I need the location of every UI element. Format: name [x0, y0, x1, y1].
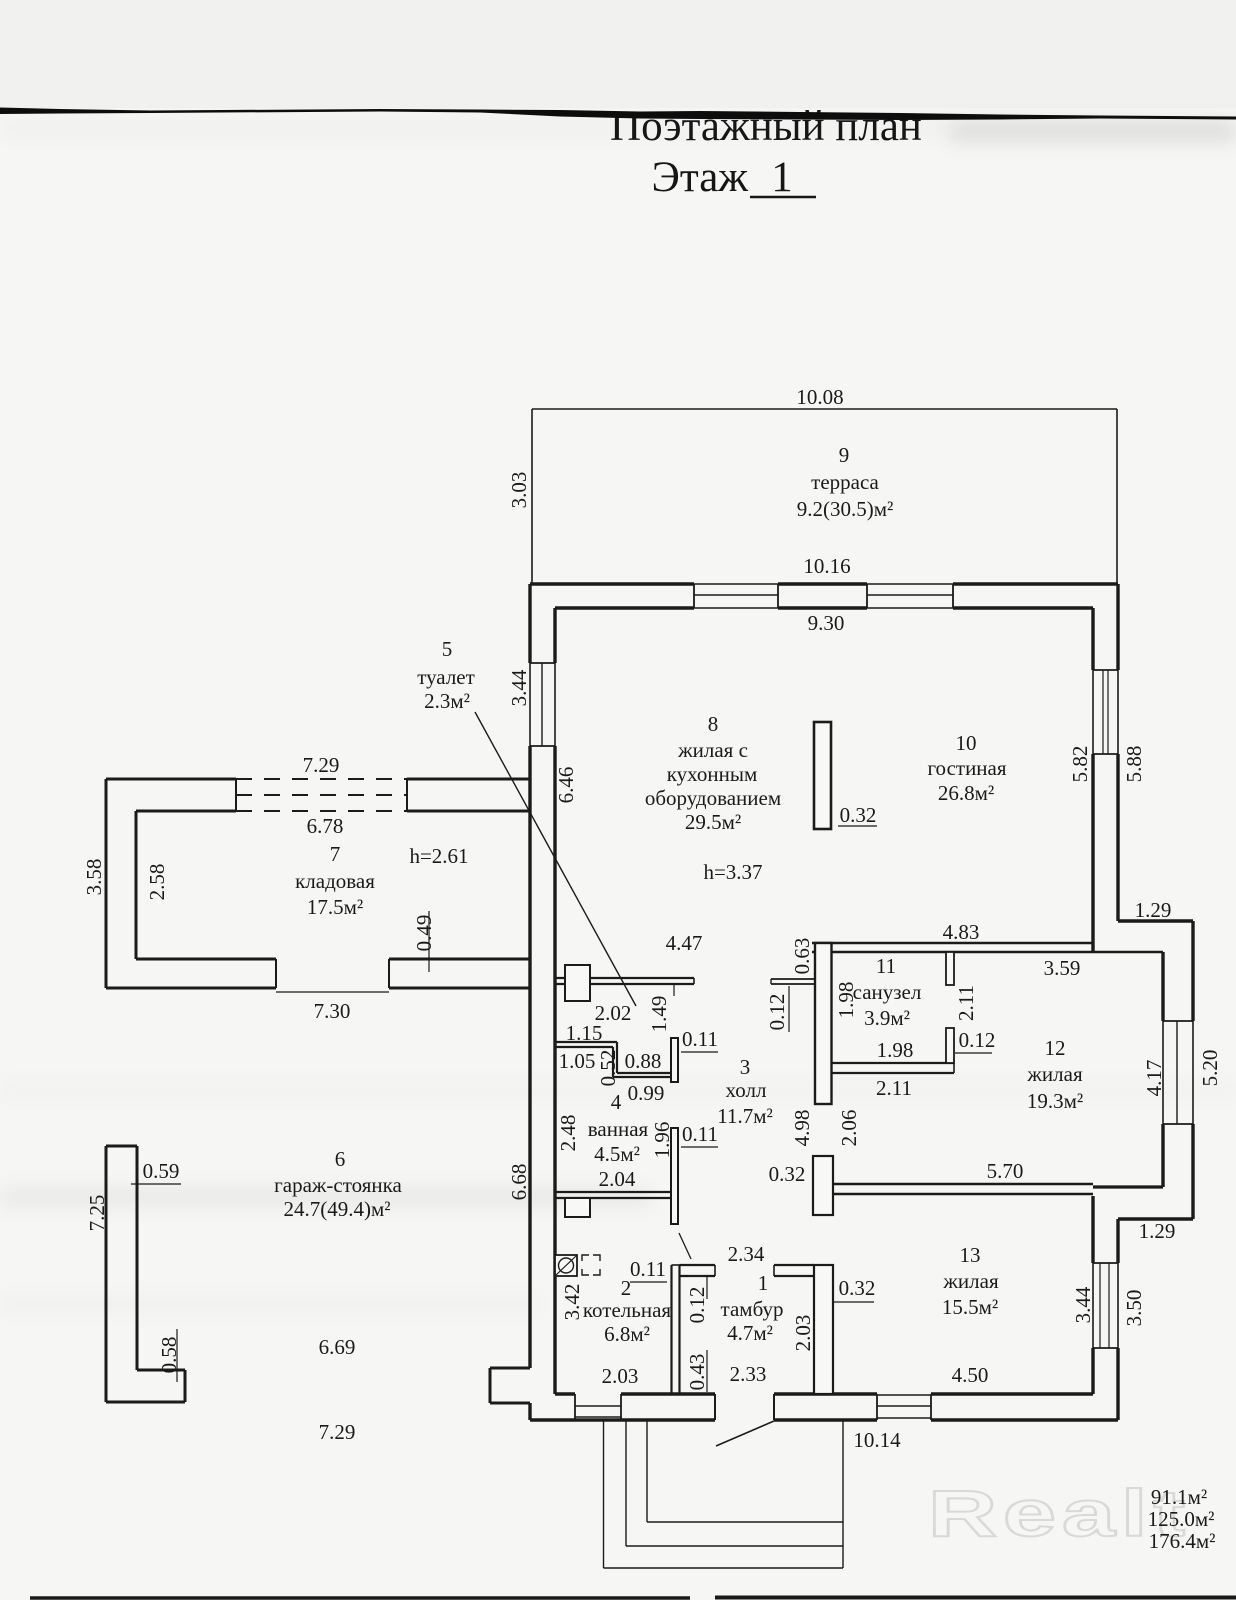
svg-text:холл: холл	[726, 1078, 767, 1102]
svg-text:3.59: 3.59	[1044, 956, 1081, 980]
svg-text:2: 2	[621, 1276, 632, 1300]
svg-text:0.52: 0.52	[596, 1050, 620, 1087]
svg-text:3.42: 3.42	[560, 1284, 584, 1321]
svg-text:6.8м²: 6.8м²	[604, 1322, 650, 1346]
svg-text:12: 12	[1045, 1036, 1066, 1060]
svg-text:1.49: 1.49	[647, 996, 671, 1033]
svg-text:Этаж: Этаж	[652, 154, 749, 201]
svg-text:19.3м²: 19.3м²	[1027, 1089, 1083, 1113]
svg-text:10.14: 10.14	[853, 1428, 901, 1452]
svg-text:6.68: 6.68	[507, 1164, 531, 1201]
svg-text:176.4м²: 176.4м²	[1149, 1529, 1216, 1553]
svg-text:2.34: 2.34	[728, 1242, 765, 1266]
svg-text:h=2.61: h=2.61	[409, 844, 468, 868]
svg-text:4.17: 4.17	[1142, 1060, 1166, 1097]
svg-text:3.50: 3.50	[1122, 1290, 1146, 1327]
svg-text:6.69: 6.69	[319, 1335, 356, 1359]
svg-text:кухонным: кухонным	[667, 762, 757, 786]
svg-text:11: 11	[876, 954, 896, 978]
svg-text:0.58: 0.58	[157, 1337, 181, 1374]
svg-text:1: 1	[758, 1271, 769, 1295]
svg-text:7.30: 7.30	[314, 999, 351, 1023]
svg-text:5.88: 5.88	[1122, 746, 1146, 783]
svg-text:0.32: 0.32	[839, 1276, 876, 1300]
svg-text:7.29: 7.29	[303, 753, 340, 777]
svg-text:гараж-стоянка: гараж-стоянка	[274, 1173, 402, 1197]
svg-text:0.32: 0.32	[840, 803, 877, 827]
svg-text:6: 6	[335, 1147, 346, 1171]
svg-text:4.7м²: 4.7м²	[727, 1321, 773, 1345]
svg-text:0.32: 0.32	[769, 1162, 806, 1186]
svg-text:2.11: 2.11	[954, 985, 978, 1021]
svg-text:жилая с: жилая с	[677, 738, 748, 762]
svg-text:125.0м²: 125.0м²	[1148, 1507, 1215, 1531]
svg-text:0.12: 0.12	[765, 994, 789, 1031]
svg-text:2.33: 2.33	[730, 1362, 767, 1386]
svg-text:кладовая: кладовая	[295, 869, 375, 893]
svg-text:жилая: жилая	[1026, 1062, 1083, 1086]
svg-text:2.58: 2.58	[145, 864, 169, 901]
svg-text:тамбур: тамбур	[721, 1297, 784, 1321]
svg-text:9: 9	[839, 443, 850, 467]
svg-text:1.29: 1.29	[1135, 898, 1172, 922]
svg-text:0.63: 0.63	[790, 938, 814, 975]
svg-text:3.58: 3.58	[82, 859, 106, 896]
svg-text:3: 3	[740, 1055, 751, 1079]
svg-text:0.49: 0.49	[412, 915, 436, 952]
svg-text:1: 1	[771, 154, 793, 201]
svg-text:ванная: ванная	[588, 1117, 649, 1141]
svg-text:0.99: 0.99	[628, 1081, 665, 1105]
svg-text:10.16: 10.16	[803, 554, 850, 578]
svg-text:h=3.37: h=3.37	[703, 860, 762, 884]
svg-text:13: 13	[960, 1243, 981, 1267]
svg-text:6.46: 6.46	[554, 767, 578, 804]
svg-text:оборудованием: оборудованием	[645, 786, 781, 810]
svg-text:8: 8	[708, 712, 719, 736]
svg-text:2.03: 2.03	[791, 1315, 815, 1352]
svg-text:4.83: 4.83	[943, 920, 980, 944]
svg-text:7: 7	[330, 842, 341, 866]
svg-text:1.29: 1.29	[1139, 1219, 1176, 1243]
svg-text:3.03: 3.03	[507, 472, 531, 509]
svg-text:29.5м²: 29.5м²	[685, 810, 741, 834]
svg-text:9.2(30.5)м²: 9.2(30.5)м²	[797, 497, 894, 521]
svg-text:2.03: 2.03	[602, 1364, 639, 1388]
svg-text:2.48: 2.48	[556, 1115, 580, 1152]
svg-text:0.43: 0.43	[685, 1354, 709, 1391]
svg-text:2.11: 2.11	[876, 1076, 912, 1100]
svg-text:26.8м²: 26.8м²	[938, 781, 994, 805]
svg-text:5.82: 5.82	[1068, 746, 1092, 783]
svg-text:10.08: 10.08	[796, 385, 843, 409]
svg-text:1.96: 1.96	[650, 1122, 674, 1159]
svg-text:9.30: 9.30	[808, 611, 845, 635]
svg-text:5: 5	[442, 637, 453, 661]
svg-text:4.98: 4.98	[790, 1110, 814, 1147]
svg-text:0.12: 0.12	[959, 1028, 996, 1052]
svg-text:2.06: 2.06	[837, 1110, 861, 1147]
svg-text:11.7м²: 11.7м²	[717, 1104, 773, 1128]
svg-text:1.15: 1.15	[566, 1021, 603, 1045]
svg-text:0.59: 0.59	[143, 1159, 180, 1183]
svg-text:5.20: 5.20	[1198, 1050, 1222, 1087]
svg-text:24.7(49.4)м²: 24.7(49.4)м²	[283, 1197, 390, 1221]
svg-text:2.04: 2.04	[599, 1167, 636, 1191]
svg-text:0.11: 0.11	[682, 1027, 718, 1051]
svg-text:жилая: жилая	[942, 1269, 999, 1293]
svg-text:91.1м²: 91.1м²	[1151, 1485, 1207, 1509]
svg-text:3.44: 3.44	[507, 669, 531, 706]
svg-text:Поэтажный план: Поэтажный план	[610, 103, 922, 150]
svg-text:котельная: котельная	[583, 1298, 671, 1322]
svg-text:0.12: 0.12	[685, 1287, 709, 1324]
svg-text:1.98: 1.98	[877, 1038, 914, 1062]
svg-text:3.44: 3.44	[1071, 1286, 1095, 1323]
svg-text:4.50: 4.50	[952, 1363, 989, 1387]
svg-text:2.3м²: 2.3м²	[424, 689, 470, 713]
svg-text:17.5м²: 17.5м²	[307, 895, 363, 919]
svg-text:терраса: терраса	[811, 470, 879, 494]
svg-text:4.47: 4.47	[666, 931, 703, 955]
svg-text:7.29: 7.29	[319, 1420, 356, 1444]
svg-text:гостиная: гостиная	[927, 756, 1006, 780]
svg-text:7.25: 7.25	[85, 1195, 109, 1232]
svg-text:0.11: 0.11	[630, 1257, 666, 1281]
svg-text:4.5м²: 4.5м²	[594, 1142, 640, 1166]
svg-text:6.78: 6.78	[307, 814, 344, 838]
svg-text:5.70: 5.70	[987, 1159, 1024, 1183]
svg-text:10: 10	[956, 731, 977, 755]
svg-text:туалет: туалет	[417, 665, 475, 689]
svg-text:15.5м²: 15.5м²	[942, 1295, 998, 1319]
svg-text:0.11: 0.11	[682, 1122, 718, 1146]
svg-text:3.9м²: 3.9м²	[864, 1006, 910, 1030]
svg-text:4: 4	[611, 1090, 622, 1114]
svg-text:0.88: 0.88	[625, 1049, 662, 1073]
svg-text:санузел: санузел	[853, 980, 922, 1004]
svg-text:1.05: 1.05	[559, 1049, 596, 1073]
